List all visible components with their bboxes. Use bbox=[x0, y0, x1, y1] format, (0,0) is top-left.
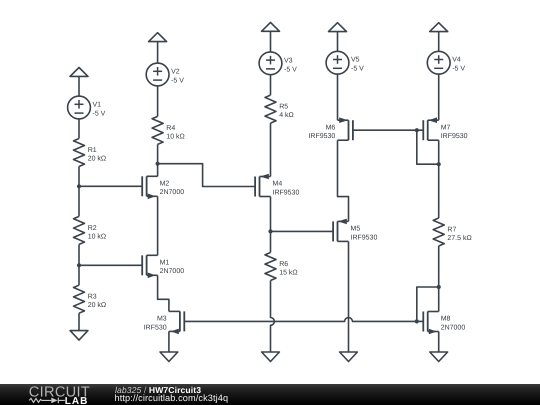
resistor R5 4 kOhm bbox=[265, 95, 294, 123]
svg-text:M1: M1 bbox=[160, 259, 170, 266]
footer bar bbox=[0, 384, 540, 405]
svg-text:LAB: LAB bbox=[65, 396, 89, 405]
svg-text:M4: M4 bbox=[273, 181, 283, 188]
power port VC bbox=[262, 22, 280, 31]
transistor M7 IRF9530 bbox=[423, 117, 467, 140]
transistor M5 IRF9530 bbox=[333, 219, 377, 242]
wire M8 source to ground bbox=[438, 332, 440, 353]
svg-text:2N7000: 2N7000 bbox=[441, 324, 466, 331]
svg-text:R1: R1 bbox=[88, 147, 97, 154]
wire M5 drain to ground bbox=[348, 241, 350, 352]
svg-text:V4: V4 bbox=[452, 57, 461, 64]
wire V4 to M7 source bbox=[438, 74, 440, 120]
node R1-R2-M2gate junction bbox=[77, 184, 81, 188]
wire R4 to M2 drain bbox=[157, 144, 159, 176]
svg-text:R6: R6 bbox=[279, 261, 288, 268]
transistor M3 IRF530 bbox=[144, 311, 185, 334]
wire M1 source to M3 drain bbox=[158, 275, 169, 311]
wire M4 drain to R6 bbox=[270, 197, 272, 253]
wire M8 gate stub bbox=[417, 320, 424, 322]
wire M3 source to ground bbox=[168, 331, 170, 352]
transistor M6 IRF9530 bbox=[308, 117, 352, 140]
node M6gate-M7gate junction bbox=[415, 128, 419, 132]
wire V2 top lead bbox=[157, 42, 159, 64]
transistor M4 IRF9530 bbox=[255, 174, 299, 197]
svg-text:M3: M3 bbox=[157, 316, 167, 323]
resistor R4 10 kOhm bbox=[152, 116, 185, 144]
svg-text:4 kΩ: 4 kΩ bbox=[279, 111, 294, 119]
wire M2 source to M1 drain bbox=[157, 196, 159, 255]
wire V4 top lead bbox=[438, 32, 440, 52]
wire M6 drain to M5 source bbox=[338, 140, 349, 221]
svg-text:10 kΩ: 10 kΩ bbox=[88, 232, 106, 240]
voltage source V2 -5 V bbox=[146, 63, 184, 86]
svg-text:20 kΩ: 20 kΩ bbox=[88, 154, 106, 162]
power port VB bbox=[149, 33, 167, 42]
wire node to M4 gate bbox=[158, 164, 256, 187]
wire V1 top lead bbox=[78, 76, 80, 96]
resistor R3 20 kOhm bbox=[74, 285, 107, 313]
voltage source V4 -5 V bbox=[427, 51, 465, 74]
svg-text:R7: R7 bbox=[447, 226, 456, 233]
ground under M3 bbox=[160, 352, 178, 362]
transistor M1 2N7000 bbox=[142, 255, 184, 278]
svg-text:10 kΩ: 10 kΩ bbox=[166, 132, 184, 140]
svg-text:-5 V: -5 V bbox=[351, 66, 364, 73]
voltage source V1 -5 V bbox=[68, 96, 106, 119]
node R4-M2drain junction bbox=[156, 162, 160, 166]
wire R3 to ground bbox=[78, 313, 80, 330]
node M4drain-R6-M5gate junction bbox=[268, 229, 272, 233]
power port VE bbox=[430, 23, 448, 32]
ground under M5 bbox=[340, 352, 358, 362]
voltage source V3 -5 V bbox=[259, 52, 297, 75]
wire V3 top lead bbox=[270, 31, 272, 52]
svg-text:2N7000: 2N7000 bbox=[160, 268, 185, 275]
svg-text:15 kΩ: 15 kΩ bbox=[279, 268, 297, 276]
svg-text:-5 V: -5 V bbox=[452, 66, 465, 73]
node M7drain-feedback junction bbox=[437, 162, 441, 166]
svg-text:R5: R5 bbox=[279, 104, 288, 111]
svg-text:IRF9530: IRF9530 bbox=[441, 133, 468, 140]
wire V3 to R5 bbox=[270, 75, 272, 95]
footer title text bbox=[115, 385, 201, 395]
wire R6 to ground (hop over horizontal wire) bbox=[271, 281, 275, 353]
wire V5 top lead bbox=[337, 32, 339, 52]
CircuitLab logo bbox=[0, 384, 110, 405]
footer url text bbox=[115, 393, 229, 403]
svg-text:IRF9530: IRF9530 bbox=[351, 234, 378, 241]
svg-text:-5 V: -5 V bbox=[93, 111, 106, 118]
transistor M8 2N7000 bbox=[423, 312, 465, 335]
wire R2 to R3 bbox=[78, 244, 80, 285]
voltage source V5 -5 V bbox=[326, 51, 364, 74]
svg-text:R3: R3 bbox=[88, 294, 97, 301]
svg-text:M2: M2 bbox=[160, 180, 170, 187]
node M8 gate junction bbox=[415, 319, 419, 323]
power port VA bbox=[70, 68, 88, 77]
svg-text:M6: M6 bbox=[326, 124, 336, 131]
svg-text:R2: R2 bbox=[88, 225, 97, 232]
wire node to M2 gate bbox=[79, 185, 142, 187]
svg-text:IRF9530: IRF9530 bbox=[273, 189, 300, 196]
svg-text:20 kΩ: 20 kΩ bbox=[88, 301, 106, 309]
svg-text:V3: V3 bbox=[284, 57, 293, 64]
ground under R6 bbox=[262, 352, 280, 362]
ground under R3 bbox=[70, 331, 88, 341]
transistor M2 2N7000 bbox=[142, 176, 184, 199]
node R7-M8drain junction bbox=[437, 285, 441, 289]
svg-text:-5 V: -5 V bbox=[171, 78, 184, 85]
wire R7 to M8 drain bbox=[438, 246, 440, 312]
svg-text:V2: V2 bbox=[171, 69, 180, 76]
svg-text:M7: M7 bbox=[441, 124, 451, 131]
wire M7 gate feedback to drain bbox=[417, 130, 439, 164]
svg-text:IRF9530: IRF9530 bbox=[308, 133, 335, 140]
wire R1 to R2 bbox=[78, 167, 80, 217]
power port VD bbox=[329, 23, 347, 32]
svg-text:V5: V5 bbox=[351, 57, 360, 64]
node R2-R3-M1gate junction bbox=[77, 263, 81, 267]
wire V1 to R1 bbox=[78, 119, 80, 139]
svg-text:R4: R4 bbox=[166, 125, 175, 132]
resistor R6 15 kOhm bbox=[265, 253, 298, 281]
wire M7 drain to R7 bbox=[438, 140, 440, 218]
resistor R7 27.5 kOhm bbox=[433, 218, 472, 246]
svg-text:IRF530: IRF530 bbox=[144, 324, 167, 331]
wire R7 node to M8 gate node bbox=[417, 287, 439, 321]
wire M3 gate to M8 gate (hop over M5 drain wire) bbox=[184, 317, 416, 321]
svg-text:-5 V: -5 V bbox=[284, 66, 297, 73]
wire V5 to M6 source bbox=[337, 74, 339, 120]
resistor R2 10 kOhm bbox=[74, 216, 107, 244]
wire node to M1 gate bbox=[79, 264, 142, 266]
wire V2 to R4 bbox=[157, 86, 159, 117]
wire M6 gate to M7 gate bbox=[353, 129, 423, 131]
svg-text:27.5 kΩ: 27.5 kΩ bbox=[447, 234, 471, 242]
ground under M8 bbox=[430, 352, 448, 362]
svg-text:V1: V1 bbox=[93, 102, 102, 109]
svg-text:2N7000: 2N7000 bbox=[160, 189, 185, 196]
svg-text:M8: M8 bbox=[441, 316, 451, 323]
svg-text:M5: M5 bbox=[351, 226, 361, 233]
wire node to M5 gate bbox=[271, 230, 334, 232]
wire R5 to M4 source bbox=[270, 123, 272, 176]
resistor R1 20 kOhm bbox=[74, 139, 107, 167]
